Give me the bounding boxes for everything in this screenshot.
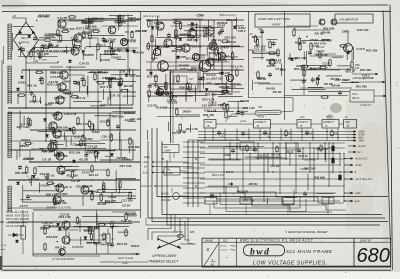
transistor Q33 xyxy=(331,19,337,25)
resistor R81 xyxy=(285,129,287,137)
wire riser mid xyxy=(151,20,153,62)
junction xyxy=(23,179,25,181)
svg-text:OA91: OA91 xyxy=(108,195,116,199)
diode D9 xyxy=(15,240,18,243)
svg-text:C5 64: C5 64 xyxy=(275,67,283,71)
wire drop xyxy=(290,129,292,141)
capacitor C14 xyxy=(198,76,202,82)
junction xyxy=(25,107,27,109)
staircase wire 3 xyxy=(216,199,332,212)
svg-text:C25 2: C25 2 xyxy=(97,44,105,48)
section divider vertical x=248 xyxy=(248,12,250,99)
svg-text:C5 64: C5 64 xyxy=(310,38,318,42)
svg-text:INPUT: INPUT xyxy=(272,23,281,27)
resistor R35 xyxy=(204,26,206,35)
resistor R33 xyxy=(151,34,153,43)
wiring cluster (60,14)-(134,24) xyxy=(68,15,125,24)
resistor R38 xyxy=(165,82,167,91)
svg-text:R28 68k: R28 68k xyxy=(38,14,50,18)
wiring cluster (289,26)-(372,60) xyxy=(290,37,353,60)
svg-text:ZD1 12v: ZD1 12v xyxy=(87,226,100,230)
wire xyxy=(82,37,98,39)
harness connector box xyxy=(322,198,334,205)
junction xyxy=(57,61,59,63)
svg-text:R28 68k: R28 68k xyxy=(249,184,258,186)
svg-text:13 ½W GND POINT: 13 ½W GND POINT xyxy=(52,257,75,261)
resistor R2 xyxy=(89,31,91,40)
svg-text:C25 2: C25 2 xyxy=(208,101,216,105)
svg-text:C9 .05: C9 .05 xyxy=(125,30,134,34)
switch wires nested U-turns xyxy=(152,215,175,241)
svg-text:R62 1k: R62 1k xyxy=(352,98,360,100)
svg-text:OA91: OA91 xyxy=(18,80,26,84)
wire riser mid xyxy=(221,46,223,84)
resistor R8 xyxy=(83,78,85,87)
svg-text:OA202: OA202 xyxy=(112,48,122,52)
junction xyxy=(97,107,99,109)
resistor R43 xyxy=(225,110,227,119)
wire xyxy=(300,69,340,71)
transformer winding T1a xyxy=(8,24,12,60)
wire drop xyxy=(259,129,261,141)
svg-text:1N914: 1N914 xyxy=(21,138,30,142)
svg-text:-12v: -12v xyxy=(142,171,148,175)
connector CONN xyxy=(204,120,216,129)
svg-text:R37 3.9k: R37 3.9k xyxy=(120,164,133,168)
svg-text:R97: R97 xyxy=(101,235,106,237)
wire xyxy=(146,19,214,21)
wire drop xyxy=(269,129,271,141)
resistor R5b xyxy=(131,30,133,39)
staircase wire 2 xyxy=(210,193,346,210)
meter M1 mains plug xyxy=(173,193,180,200)
junction xyxy=(103,19,105,21)
svg-text:R8 2.2k: R8 2.2k xyxy=(172,49,183,53)
wire drop xyxy=(242,148,244,193)
svg-text:R19 1.5k: R19 1.5k xyxy=(47,83,60,87)
svg-text:~6.3v: ~6.3v xyxy=(355,163,363,167)
wire xyxy=(8,112,58,114)
svg-text:R26 15k: R26 15k xyxy=(203,113,215,117)
svg-text:-150v: -150v xyxy=(358,139,365,143)
capacitor C4 xyxy=(118,82,122,88)
resistor R60 xyxy=(269,40,271,49)
box 24v lamp xyxy=(162,145,179,153)
svg-text:CONN 'C': CONN 'C' xyxy=(299,122,309,124)
wire xyxy=(52,39,58,41)
junction xyxy=(119,107,121,109)
svg-text:R41 1k: R41 1k xyxy=(226,171,234,174)
box cal conn xyxy=(164,167,180,175)
svg-text:R33 10k: R33 10k xyxy=(209,51,221,55)
svg-text:C14 25: C14 25 xyxy=(88,145,98,149)
svg-text:AC128: AC128 xyxy=(176,55,187,59)
junction xyxy=(29,161,31,163)
wire riser xyxy=(25,62,27,108)
svg-text:R37 3.9k: R37 3.9k xyxy=(112,115,125,119)
wire xyxy=(153,172,198,174)
switch S1 crossing xyxy=(158,239,180,248)
svg-text:R23 4.7k: R23 4.7k xyxy=(159,93,172,97)
wire xyxy=(232,113,255,115)
wiring cluster (12,164)-(136,204) xyxy=(20,170,136,203)
transistor Q32 xyxy=(319,19,325,25)
wire riser mid xyxy=(231,20,233,92)
svg-text:R12 330: R12 330 xyxy=(357,28,369,32)
title block header row line xyxy=(202,241,391,243)
svg-text:CRT: CRT xyxy=(345,122,350,124)
wire rail xyxy=(8,91,136,93)
wire xyxy=(171,188,173,193)
svg-text:+12.6v: +12.6v xyxy=(358,144,367,148)
wire drop xyxy=(257,143,259,159)
svg-text:R37 3.9k: R37 3.9k xyxy=(53,49,66,53)
transistor Q12 xyxy=(57,166,65,174)
junction xyxy=(162,158,164,160)
resistor R24 xyxy=(44,226,46,235)
diode D5 xyxy=(20,76,23,79)
svg-text:UPPER '5': UPPER '5' xyxy=(324,122,335,124)
wire drop xyxy=(339,154,341,166)
wire drop xyxy=(337,129,339,141)
svg-text:OA202: OA202 xyxy=(88,28,98,32)
wire xyxy=(107,228,109,234)
bus +12 xyxy=(200,164,340,166)
svg-text:R15 220: R15 220 xyxy=(225,36,237,40)
ladder rung stub xyxy=(183,167,205,169)
svg-text:2N3055W x2 (13 ½W): 2N3055W x2 (13 ½W) xyxy=(45,206,71,210)
svg-text:2N3055W: 2N3055W xyxy=(71,245,84,249)
svg-text:BC108: BC108 xyxy=(186,57,196,61)
paper corner mark xyxy=(0,256,2,270)
wire xyxy=(292,98,294,112)
svg-text:C21 100: C21 100 xyxy=(219,71,231,75)
wire rail xyxy=(58,19,140,21)
svg-text:R28 68k: R28 68k xyxy=(332,86,341,88)
wire riser xyxy=(83,113,85,141)
output terminal +12.6v xyxy=(348,145,356,147)
resistor R75 xyxy=(299,42,301,51)
svg-text:+6.3v: +6.3v xyxy=(258,116,265,119)
junction xyxy=(223,171,224,172)
svg-text:AC128: AC128 xyxy=(222,155,231,157)
resistor R34 xyxy=(175,28,177,37)
arrow on bus xyxy=(228,183,233,186)
wire bottom xyxy=(285,95,349,97)
wire xyxy=(89,20,91,31)
input terminal AC xyxy=(252,36,254,38)
svg-text:R28 68k: R28 68k xyxy=(314,175,326,179)
svg-text:C25 2: C25 2 xyxy=(65,92,73,96)
junction xyxy=(295,171,296,172)
svg-text:OA202: OA202 xyxy=(111,56,121,60)
junction xyxy=(69,19,71,21)
svg-text:bwd: bwd xyxy=(250,247,270,257)
border frame top double line xyxy=(2,4,388,7)
svg-text:R44 820: R44 820 xyxy=(46,235,58,239)
resistor R62 xyxy=(257,70,259,79)
svg-text:R51 56k: R51 56k xyxy=(87,241,99,245)
transistor Q26 xyxy=(206,58,214,66)
rail xyxy=(170,70,172,143)
wire xyxy=(30,129,120,131)
harness wire 4 xyxy=(162,141,382,215)
wire rail xyxy=(8,149,136,151)
node xyxy=(57,41,58,42)
rail y=254 xyxy=(33,253,140,255)
transistor Q2a xyxy=(108,26,116,34)
resistor R19 xyxy=(107,168,109,177)
transistor Q1 xyxy=(58,20,66,28)
wire xyxy=(8,207,55,209)
junction xyxy=(119,179,121,181)
harness bus xyxy=(198,140,348,142)
wiring cluster (205,142)-(340,204) xyxy=(208,146,334,204)
resistor R56 xyxy=(276,145,278,153)
resistor R26 xyxy=(89,226,91,235)
wire xyxy=(153,161,188,163)
svg-text:R12 330: R12 330 xyxy=(64,49,76,53)
wire xyxy=(310,55,344,57)
capacitor C30 xyxy=(308,50,312,56)
resistor R73 xyxy=(303,68,305,77)
svg-text:C17 8: C17 8 xyxy=(209,195,217,199)
junction xyxy=(69,107,71,109)
resistor R90 xyxy=(176,235,185,237)
svg-text:P-P: P-P xyxy=(189,79,193,81)
wiring cluster (145,16)-(244,62) xyxy=(147,16,244,62)
junction xyxy=(45,140,47,142)
ladder rung stub xyxy=(183,157,205,159)
svg-text:2N3055: 2N3055 xyxy=(114,21,126,25)
svg-text:1N914: 1N914 xyxy=(131,244,140,248)
wire drop xyxy=(280,129,282,141)
resistor R82 xyxy=(331,129,333,137)
output second xyxy=(374,95,380,97)
box 2v p-p xyxy=(170,72,198,89)
svg-text:2N3638: 2N3638 xyxy=(355,47,366,51)
svg-text:BR-1: BR-1 xyxy=(22,37,28,40)
junction xyxy=(199,69,201,71)
resistor R55 xyxy=(246,144,248,152)
resistor R36 xyxy=(213,38,215,47)
svg-text:Traced: Traced xyxy=(221,250,228,252)
svg-text:R88: R88 xyxy=(190,232,195,234)
wire stub xyxy=(327,204,329,215)
transistor Q30 xyxy=(269,59,275,65)
svg-text:+6.3v: +6.3v xyxy=(240,120,247,123)
svg-text:C23 2: C23 2 xyxy=(352,94,359,96)
junction xyxy=(309,158,310,159)
harness wire 5 xyxy=(167,160,380,225)
resistor R40 xyxy=(189,82,191,91)
wire rail mid xyxy=(146,69,244,71)
svg-text:SOCKET: SOCKET xyxy=(161,199,171,202)
ladder rung stub xyxy=(183,187,205,189)
wire riser mid xyxy=(199,20,201,92)
resistor R27 xyxy=(103,232,105,241)
delay line DL1 xyxy=(255,110,281,115)
transistor Q16 xyxy=(62,221,70,229)
bwd logo xyxy=(244,245,285,258)
harness connector box xyxy=(282,198,294,205)
svg-text:R8 2.2k: R8 2.2k xyxy=(82,184,93,188)
svg-text:+6.3v A.C.: +6.3v A.C. xyxy=(355,157,369,161)
harness wire outermost xyxy=(157,128,388,197)
svg-text:+24v: +24v xyxy=(355,191,362,195)
svg-text:AC128: AC128 xyxy=(99,120,110,124)
resistor R18 xyxy=(91,164,93,173)
resistor R3 xyxy=(97,42,99,51)
wire xyxy=(25,58,27,63)
svg-text:R37 3.9k: R37 3.9k xyxy=(17,125,30,129)
svg-text:AC128: AC128 xyxy=(99,58,110,62)
bus 6.3a xyxy=(208,185,345,187)
svg-text:R33 10k: R33 10k xyxy=(191,66,203,70)
wiring cluster (12,110)-(136,158) xyxy=(20,111,136,158)
transformer winding T1b xyxy=(8,66,12,104)
wire xyxy=(351,52,353,62)
junction xyxy=(231,69,233,71)
svg-text:(24v): (24v) xyxy=(144,156,150,159)
wire bus y=108 xyxy=(8,107,133,109)
wire xyxy=(180,243,196,245)
wire drop xyxy=(224,129,226,141)
svg-text:AC128: AC128 xyxy=(97,71,108,75)
svg-text:2N3055: 2N3055 xyxy=(22,157,34,161)
output terminal gnd xyxy=(345,200,353,202)
ladder rung stub xyxy=(183,172,205,174)
svg-text:(24v to p.2 p.): (24v to p.2 p.) xyxy=(220,13,237,17)
svg-text:R44 820: R44 820 xyxy=(321,39,333,43)
enclosure box upper xyxy=(100,69,133,71)
wire out xyxy=(352,73,370,75)
svg-text:C12 50: C12 50 xyxy=(60,213,70,217)
svg-text:+12v: +12v xyxy=(142,160,149,164)
junction xyxy=(213,45,215,47)
ladder rail A xyxy=(187,140,189,207)
wire xyxy=(281,111,293,112)
node xyxy=(175,19,176,20)
transistor Q18 xyxy=(59,249,65,255)
potentiometer VR1 xyxy=(125,228,127,237)
wiring cluster (300,62)-(370,92) xyxy=(302,66,359,92)
wire xyxy=(347,33,349,43)
wire xyxy=(70,239,104,241)
svg-text:C17 8: C17 8 xyxy=(20,204,28,208)
svg-text:C62: C62 xyxy=(258,29,263,31)
svg-text:R51 56k: R51 56k xyxy=(323,27,335,31)
wiring cluster (36,212)-(135,252) xyxy=(40,213,132,245)
svg-text:C45 560: C45 560 xyxy=(174,231,183,234)
junction xyxy=(285,147,286,148)
junction xyxy=(339,171,340,172)
ladder rung stub xyxy=(183,192,205,194)
wire stub xyxy=(209,204,211,215)
wire rail mid xyxy=(146,45,240,47)
svg-text:OA91: OA91 xyxy=(92,130,100,134)
wire xyxy=(22,210,24,226)
wire bus y=162 xyxy=(30,161,140,163)
svg-text:BWD ELECTRONICS P/L MELB AU: BWD ELECTRONICS P/L MELB AUST xyxy=(240,239,314,243)
transistor Q9 xyxy=(53,130,61,138)
wiring cluster (145,105)-(200,140) xyxy=(148,107,201,140)
enclosure box lower xyxy=(100,139,133,141)
svg-text:C30 .01: C30 .01 xyxy=(64,129,75,133)
svg-text:© 0.5v A.C.: © 0.5v A.C. xyxy=(360,104,373,107)
wire xyxy=(160,107,248,109)
capacitor C20 xyxy=(303,191,307,197)
ladder rail C xyxy=(197,140,199,207)
wiring cluster (251,30)-(283,94) xyxy=(252,34,281,90)
transistor Q2b xyxy=(120,38,127,45)
border frame bottom double line xyxy=(2,265,391,267)
wire xyxy=(303,64,305,95)
junction xyxy=(83,140,85,142)
connector LOWER &#39;5&#39; xyxy=(254,120,271,129)
wiring cluster (12,66)-(136,106) xyxy=(33,67,136,106)
wire ladder top xyxy=(188,139,230,141)
capacitor C50 xyxy=(231,148,235,154)
diode D21 xyxy=(220,72,223,75)
rail y=210 xyxy=(33,209,140,211)
resistor R15 xyxy=(107,118,109,127)
resistor R1 40 xyxy=(43,39,52,41)
title block column line 3 xyxy=(353,238,355,267)
svg-text:C30 .01: C30 .01 xyxy=(121,219,132,223)
svg-text:R33 10k: R33 10k xyxy=(56,154,68,158)
svg-text:R62 100: R62 100 xyxy=(316,147,328,151)
harness bus xyxy=(198,134,348,136)
bus 6.3b xyxy=(200,192,336,194)
junction xyxy=(109,161,111,163)
wire xyxy=(65,169,108,171)
svg-text:R19 1.5k: R19 1.5k xyxy=(345,72,355,74)
diode D8 xyxy=(72,160,75,163)
svg-text:C9 .05: C9 .05 xyxy=(73,143,82,147)
svg-text:R33 10k: R33 10k xyxy=(273,92,282,94)
resistor R25 xyxy=(44,242,46,251)
section divider vertical x=140 xyxy=(140,12,142,219)
wire stub xyxy=(245,204,247,215)
title block outline xyxy=(202,238,391,267)
output terminal 0v xyxy=(348,151,356,153)
wiring cluster (146,18)-(244,60) xyxy=(151,20,244,57)
svg-text:C14 25: C14 25 xyxy=(57,16,67,20)
svg-text:R51 56k: R51 56k xyxy=(294,67,306,71)
transistor Q5 xyxy=(58,83,66,91)
svg-text:R17 470: R17 470 xyxy=(305,158,317,162)
svg-text:NO SIGNAL INPUT: NO SIGNAL INPUT xyxy=(6,221,29,225)
zener ZD2 xyxy=(68,128,71,131)
resistor R13 xyxy=(77,116,79,125)
wire riser xyxy=(127,20,129,70)
wire return loop 2 xyxy=(220,190,294,205)
wire rail xyxy=(30,129,136,131)
svg-text:2N3055: 2N3055 xyxy=(82,53,94,57)
title block column line 1 xyxy=(218,238,220,267)
wire riser xyxy=(45,70,47,141)
transistor Q3 xyxy=(71,47,79,55)
wiring cluster (12,68)-(136,104) xyxy=(17,69,136,104)
svg-text:R28 68k: R28 68k xyxy=(322,33,331,35)
svg-text:LOWER '5': LOWER '5' xyxy=(255,122,267,124)
svg-text:1N914: 1N914 xyxy=(182,109,191,113)
wire drop xyxy=(212,129,214,141)
svg-text:C17 8: C17 8 xyxy=(273,61,281,65)
svg-text:C21 100: C21 100 xyxy=(271,166,280,168)
svg-text:ZD1 12v: ZD1 12v xyxy=(241,198,254,202)
